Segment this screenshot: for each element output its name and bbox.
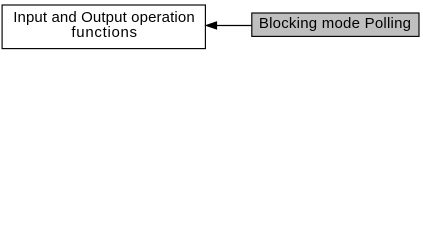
node: Input and Output operation functions (group box) [2,5,205,49]
svg-text:functions: functions [71,24,137,41]
node: Blocking mode Polling (current group, grey fill) [252,13,419,36]
wire: edge shaft from Blocking box to arrowhead [216,24,252,26]
svg-text:Blocking mode Polling: Blocking mode Polling [259,15,411,32]
arrowhead pointing at left box [206,22,217,30]
